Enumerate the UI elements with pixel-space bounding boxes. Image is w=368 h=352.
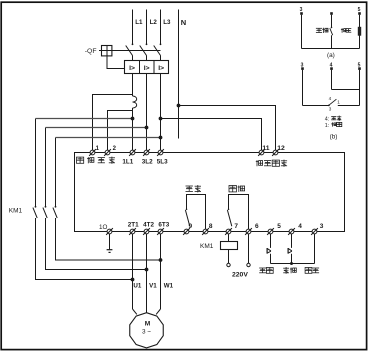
svg-text:2T1: 2T1 bbox=[128, 222, 139, 229]
svg-text:8: 8 bbox=[209, 223, 213, 230]
svg-text:5: 5 bbox=[277, 223, 281, 230]
svg-text:1O: 1O bbox=[99, 224, 108, 231]
svg-text:1: 1 bbox=[337, 100, 340, 105]
svg-text:W1: W1 bbox=[164, 283, 174, 290]
svg-text:-QF: -QF bbox=[85, 48, 97, 55]
svg-text:I>: I> bbox=[144, 65, 150, 72]
svg-text:KM1: KM1 bbox=[9, 207, 23, 214]
svg-text:6T3: 6T3 bbox=[158, 222, 169, 229]
svg-text:3L2: 3L2 bbox=[142, 158, 153, 165]
svg-text:5: 5 bbox=[358, 62, 361, 68]
svg-text:L2: L2 bbox=[150, 19, 158, 26]
svg-text:1L1: 1L1 bbox=[122, 158, 133, 165]
svg-text:3 ~: 3 ~ bbox=[142, 329, 151, 336]
svg-text:11: 11 bbox=[262, 145, 269, 152]
svg-text:(a): (a) bbox=[327, 52, 335, 59]
svg-text:4: 4 bbox=[330, 62, 333, 68]
svg-text:3: 3 bbox=[329, 107, 332, 112]
svg-text:4: 4 bbox=[329, 96, 332, 101]
svg-text:6: 6 bbox=[255, 223, 259, 230]
svg-text:I>: I> bbox=[129, 65, 135, 72]
svg-text:N: N bbox=[181, 18, 186, 27]
svg-text:12: 12 bbox=[277, 145, 285, 152]
svg-text:V1: V1 bbox=[149, 283, 157, 290]
svg-text:M: M bbox=[145, 320, 151, 327]
svg-text:L1: L1 bbox=[135, 19, 143, 26]
svg-text:I>: I> bbox=[158, 65, 164, 72]
svg-text:3: 3 bbox=[320, 223, 324, 230]
svg-text:3: 3 bbox=[300, 7, 303, 13]
svg-text:(b): (b) bbox=[330, 134, 338, 141]
svg-text:5: 5 bbox=[358, 7, 361, 13]
svg-text:4:: 4: bbox=[325, 117, 330, 123]
svg-text:KM1: KM1 bbox=[200, 243, 214, 250]
svg-text:5L3: 5L3 bbox=[157, 158, 168, 165]
svg-text:U1: U1 bbox=[133, 283, 141, 290]
svg-text:7: 7 bbox=[234, 223, 238, 230]
svg-text:3: 3 bbox=[301, 62, 304, 68]
svg-text:4T2: 4T2 bbox=[143, 222, 154, 229]
svg-text:220V: 220V bbox=[232, 271, 248, 278]
svg-text:L3: L3 bbox=[163, 19, 171, 26]
svg-text:4: 4 bbox=[298, 223, 302, 230]
svg-text:1:: 1: bbox=[325, 123, 330, 129]
